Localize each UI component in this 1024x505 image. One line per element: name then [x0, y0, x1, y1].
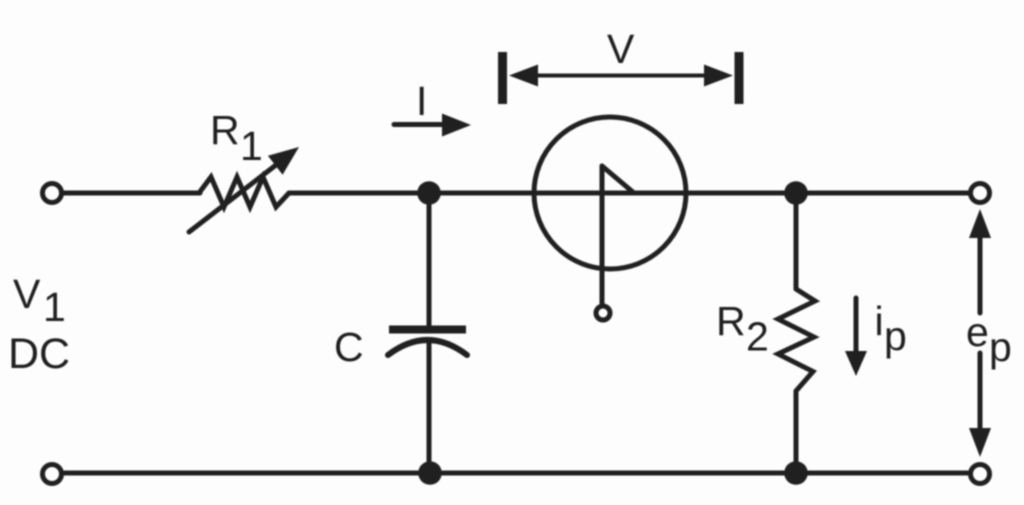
- bottom wire BL to BR: [64, 471, 968, 476]
- terminal TR (ep +): [971, 184, 990, 203]
- capacitor C curved bottom plate: [388, 340, 467, 355]
- resistor R2 zigzag: [778, 289, 815, 391]
- resistor R2: wire from node B down: [794, 193, 799, 289]
- svg-text:e: e: [966, 309, 989, 355]
- svg-text:R: R: [210, 107, 240, 153]
- wire TL terminal to R1: [64, 191, 200, 196]
- terminal BL (V1 -): [43, 465, 62, 484]
- wire node A to node B (passes through meter): [429, 191, 796, 196]
- wire R1 to node A: [289, 191, 429, 196]
- current arrow I: [394, 114, 471, 137]
- capacitor C: wire from node A down to top plate: [427, 193, 432, 325]
- wire capacitor to bottom node: [427, 342, 432, 473]
- svg-text:1: 1: [43, 284, 66, 330]
- meter bottom terminal: [596, 306, 610, 320]
- svg-text:1: 1: [240, 123, 263, 169]
- node (junction bottom of C): [418, 461, 442, 485]
- svg-text:V: V: [13, 271, 41, 317]
- svg-text:i: i: [875, 298, 884, 344]
- terminal TL (V1 +): [43, 184, 62, 203]
- terminal BR (ep -): [971, 465, 990, 484]
- V measurement right bar: [735, 52, 744, 104]
- svg-text:V: V: [607, 26, 635, 72]
- voltage arrow ep (double headed, broken for label): [969, 209, 991, 457]
- node B (junction top of R2): [784, 181, 808, 205]
- wire node B to terminal TR: [796, 191, 968, 196]
- node A (junction top of C): [417, 181, 441, 205]
- svg-text:p: p: [989, 324, 1012, 370]
- svg-text:DC: DC: [8, 330, 70, 378]
- current arrow ip: [845, 298, 867, 376]
- meter U1 (voltmeter circle): [534, 117, 686, 269]
- svg-text:2: 2: [746, 314, 769, 360]
- resistor R1 (variable, zigzag): [199, 177, 289, 207]
- V measurement left bar: [498, 52, 507, 104]
- wire R2 to bottom node: [794, 391, 799, 473]
- arrow of R1 variable wiper: [189, 147, 299, 232]
- V measurement double-headed arrow: [509, 65, 733, 87]
- node (junction bottom of R2): [784, 461, 808, 485]
- svg-text:R: R: [716, 298, 746, 344]
- capacitor C top plate: [389, 326, 466, 334]
- svg-text:p: p: [884, 313, 907, 359]
- svg-text:I: I: [416, 78, 427, 124]
- meter needle stem: [600, 166, 605, 306]
- meter needle flag: [602, 166, 634, 193]
- svg-text:C: C: [334, 324, 364, 370]
